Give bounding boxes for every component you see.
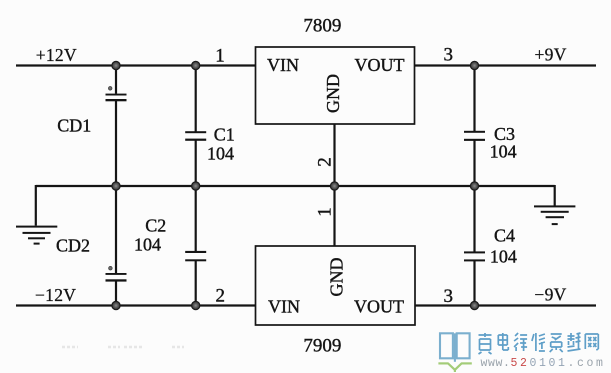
pin 3 U1 VOUT <box>444 45 454 66</box>
wire C3 bottom lead <box>473 140 475 186</box>
wire CD1 bottom lead <box>115 101 117 186</box>
wire bottom-left (-12V rail to U2 VIN) <box>16 304 256 306</box>
op-amp U2 regulator 7909 box <box>256 246 416 325</box>
wire C1 top lead <box>195 66 197 132</box>
wire U2 GND pin 1 <box>333 186 335 247</box>
label CD2 <box>56 235 90 255</box>
svg-text:104: 104 <box>490 142 517 162</box>
svg-text:+12V: +12V <box>36 45 77 65</box>
value label 7809 <box>303 16 341 37</box>
svg-text:2: 2 <box>314 157 335 167</box>
pin 2 U1 GND <box>314 157 335 167</box>
svg-text:VIN: VIN <box>268 297 300 317</box>
wire C2 top lead <box>195 186 197 252</box>
wire top-left (+12V rail to U1 VIN) <box>16 64 256 66</box>
capacitor C2 <box>185 251 206 261</box>
capacitor C3 <box>464 131 485 141</box>
svg-text:2: 2 <box>216 285 226 306</box>
svg-text:3: 3 <box>444 286 454 307</box>
pin 1 U2 GND <box>315 207 336 217</box>
svg-text:C2: C2 <box>145 215 166 235</box>
svg-text:C4: C4 <box>494 226 515 246</box>
node junction top C3 <box>470 61 478 69</box>
svg-text:104: 104 <box>134 235 161 255</box>
svg-text:−9V: −9V <box>534 284 566 304</box>
node junction bottom C4 <box>470 301 478 309</box>
svg-text:CD1: CD1 <box>57 116 91 136</box>
net label -9V <box>534 284 566 304</box>
svg-text:104: 104 <box>490 246 517 266</box>
svg-text:−12V: −12V <box>35 285 76 305</box>
pin 2 U2 VIN <box>216 285 226 306</box>
label C4 104 <box>490 226 517 267</box>
wire C4 bottom lead <box>473 260 475 305</box>
node junction bus C4 <box>470 182 478 190</box>
node junction top CD1 <box>112 61 120 69</box>
wire U1 GND pin 2 <box>333 124 335 187</box>
svg-text:1: 1 <box>315 207 336 217</box>
net label +12V <box>36 45 77 65</box>
capacitor C4 <box>464 251 485 261</box>
svg-text:VIN: VIN <box>267 55 299 75</box>
svg-text:C1: C1 <box>214 125 235 145</box>
node junction bus C2 <box>192 182 200 190</box>
svg-text:GND: GND <box>326 258 346 297</box>
wire top-right (U1 VOUT to +9V) <box>415 64 597 66</box>
label C1 104 <box>207 125 235 164</box>
label C2 104 <box>134 215 166 254</box>
node junction bottom CD2 <box>112 301 120 309</box>
capacitor CD2 (electrolytic) <box>106 266 127 281</box>
ground left <box>16 226 57 245</box>
svg-text:7809: 7809 <box>303 16 341 37</box>
svg-text:3: 3 <box>444 45 454 66</box>
wire CD2 top lead <box>115 186 117 273</box>
wire left ground drop <box>35 185 37 226</box>
node junction bus CD <box>112 182 120 190</box>
wire C3 top lead <box>473 66 475 132</box>
wire CD2 bottom lead <box>115 281 117 305</box>
capacitor C1 <box>185 131 206 141</box>
svg-text:VOUT: VOUT <box>354 297 404 317</box>
svg-text:GND: GND <box>323 74 343 113</box>
label CD1 <box>57 116 91 136</box>
node junction bottom C2 <box>192 301 200 309</box>
svg-text:104: 104 <box>207 144 234 164</box>
wire C2 bottom lead <box>195 260 197 305</box>
capacitor CD1 (electrolytic) <box>106 87 127 102</box>
svg-text:www.520101.com: www.520101.com <box>481 357 606 370</box>
svg-text:CD2: CD2 <box>56 235 90 255</box>
wire C1 bottom lead <box>195 140 197 186</box>
net label -12V <box>35 285 76 305</box>
wire right ground drop <box>554 185 556 206</box>
wire C4 top lead <box>473 186 475 252</box>
net label +9V <box>535 45 567 65</box>
wire CD1 top lead <box>115 66 117 94</box>
pin 3 U2 VOUT <box>444 286 454 307</box>
svg-text:1: 1 <box>215 46 225 67</box>
ground right <box>534 205 575 225</box>
svg-text:VOUT: VOUT <box>355 55 405 75</box>
node junction bus GND pins <box>330 182 338 190</box>
op-amp U1 regulator 7809 box <box>256 47 415 124</box>
label C3 104 <box>490 124 517 162</box>
node junction top C1 <box>192 61 200 69</box>
pin 1 U1 VIN <box>215 46 225 67</box>
svg-text:7909: 7909 <box>303 335 341 356</box>
wire bottom-right (U2 VOUT to -9V) <box>415 304 597 306</box>
value label 7909 <box>303 335 341 356</box>
wire middle ground bus <box>36 185 555 187</box>
svg-text:+9V: +9V <box>535 45 567 65</box>
